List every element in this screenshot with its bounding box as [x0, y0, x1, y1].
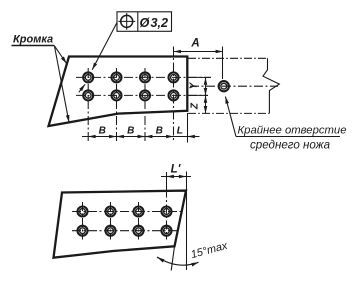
row centerline 1 top view: [76, 76, 211, 78]
column centerline 1: [87, 68, 89, 143]
svg-text:В: В: [127, 125, 134, 136]
row centerline 2 top view: [76, 94, 208, 96]
extra hole knife: [219, 81, 229, 91]
plate right edge extension: [187, 113, 189, 143]
hole B13: [134, 207, 144, 217]
hole B12: [106, 207, 116, 217]
kromka leader arrow to bottom edge: [54, 46, 69, 123]
column centerline 1 bottom view: [82, 202, 84, 240]
svg-text:A: A: [190, 38, 199, 50]
extra hole extension for A: [222, 47, 224, 80]
dimension Z: [205, 96, 207, 114]
hole B21: [78, 226, 88, 236]
hole B24: [162, 226, 172, 236]
kromka leader arrow to left edge: [54, 46, 66, 64]
row centerline 1 bottom view: [72, 211, 181, 213]
column centerline 3: [144, 68, 146, 143]
kromka underline: [12, 45, 55, 47]
hole H21: [83, 90, 93, 100]
knife strip bottom edge (phantom): [188, 112, 269, 114]
hole H23: [140, 90, 150, 100]
column centerline 4 / extension for A: [173, 47, 175, 143]
hole H24: [169, 90, 179, 100]
svg-text:Ø3,2: Ø3,2: [140, 16, 169, 30]
svg-text:Кромка: Кромка: [13, 34, 53, 46]
svg-text:Крайнее отверстие: Крайнее отверстие: [238, 125, 347, 137]
knife strip top edge (phantom): [188, 57, 268, 59]
column centerline 2 bottom view: [110, 202, 112, 240]
break line zigzag: [263, 58, 279, 113]
svg-text:Y: Y: [189, 81, 200, 89]
svg-text:Z: Z: [190, 102, 201, 110]
right edge extension bottom view: [171, 246, 174, 270]
column centerline 3 bottom view: [138, 202, 140, 240]
dimension A: [174, 51, 223, 53]
dimension L': [161, 176, 191, 178]
hole B14: [162, 207, 172, 217]
hole H22: [112, 90, 122, 100]
hole B11: [78, 207, 88, 217]
Z extension line: [188, 94, 208, 96]
hole H12: [112, 72, 122, 82]
hole H11: [83, 72, 93, 82]
svg-text:L: L: [177, 124, 183, 136]
hole B22: [106, 226, 116, 236]
callout box: [117, 12, 172, 32]
callout leader to hole H11: [92, 23, 117, 70]
svg-text:среднего ножа: среднего ножа: [250, 139, 331, 152]
leader extreme hole: [225, 97, 340, 137]
second leader arrow to hole H21: [79, 84, 85, 92]
angle arc 15 deg: [157, 257, 199, 265]
Y extension line: [188, 76, 211, 78]
svg-text:L': L': [171, 164, 182, 176]
vertical extension for angle and L': [186, 172, 188, 271]
hole H13: [140, 72, 150, 82]
hole H14: [169, 72, 179, 82]
plate outline bottom view: [54, 191, 187, 258]
svg-text:15°max: 15°max: [190, 240, 230, 261]
hole B23: [134, 226, 144, 236]
plate outline top view: [49, 57, 188, 127]
svg-text:В: В: [156, 125, 163, 136]
extra hole centerline: [190, 85, 278, 87]
dimension B row: [82, 136, 200, 138]
column centerline 4 bottom view: [166, 189, 168, 240]
callout hole symbol: [118, 13, 135, 30]
column 4 extension for L': [166, 172, 168, 189]
row centerline 2 bottom view: [72, 230, 179, 232]
dimension Y: [205, 78, 207, 96]
column centerline 2: [116, 68, 118, 143]
svg-text:В: В: [99, 125, 106, 136]
